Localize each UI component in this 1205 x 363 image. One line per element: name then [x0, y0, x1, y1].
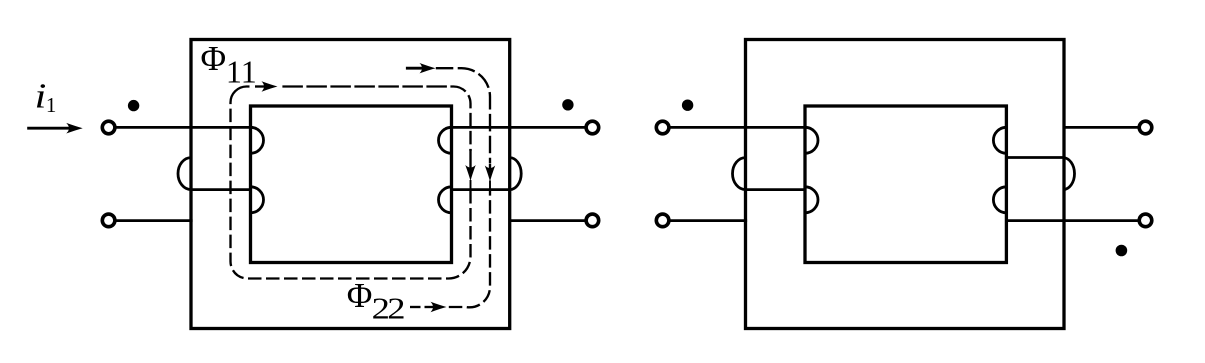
wire: coil 1 middle turn [191, 188, 251, 191]
terminal T4a (top-right, coil 4) [1139, 121, 1152, 134]
wire: coil 1 bottom lead [117, 219, 193, 222]
wire: coil 1 top lead [117, 126, 251, 129]
flux PHI22 down arrow [485, 164, 495, 182]
coil 2 turn arc (inner top) [439, 127, 452, 153]
coil 2 turn arc (outer) [510, 158, 522, 190]
svg-text:Φ: Φ [347, 276, 373, 315]
terminal T4b (bottom-right, coil 4) [1139, 214, 1152, 227]
coil 4 turn arc (inner bottom) [993, 187, 1006, 213]
terminal T1a (top-left, coil 1) [102, 121, 115, 134]
svg-text:i: i [35, 77, 47, 116]
wire: coil 2 top lead [452, 126, 585, 129]
core 2 window (inner boundary) [805, 106, 1006, 263]
flux PHI22 top dashed run and right-top corner [436, 68, 490, 163]
svg-text:1: 1 [241, 53, 257, 89]
flux PHI11 top-right corner and right leg [454, 87, 471, 152]
terminal T2a (top-right, coil 2) [586, 121, 599, 134]
coil 3 turn arc (inner top) [805, 127, 818, 153]
flux PHI22 bottom leading dash [410, 306, 421, 308]
wire: coil 4 top lead [1063, 126, 1138, 129]
coil 1 turn arc (inner top) [251, 127, 264, 153]
svg-text:2: 2 [387, 292, 405, 326]
wire: coil 3 top lead [671, 126, 806, 129]
label i1 [35, 77, 57, 117]
core 1 outer boundary [191, 40, 510, 329]
flux PHI22 right leg lower and bottom-right corner [489, 181, 491, 192]
wire: coil 3 middle turn [746, 188, 806, 191]
coil 1 turn arc (inner bottom) [251, 187, 264, 213]
svg-text:1: 1 [226, 53, 242, 89]
polarity dot, coil 3 [682, 100, 693, 111]
flux PHI11 top dashed run [282, 85, 453, 87]
polarity dot, coil 2 [562, 99, 573, 110]
flux PHI22 bottom arrow [425, 302, 447, 312]
coil 3 turn arc (outer) [733, 158, 746, 190]
flux PHI11 top-left corner (solid lead) [231, 87, 250, 103]
flux PHI22 top arrow (solid lead) [406, 63, 436, 73]
coil 2 turn arc (inner bottom) [439, 187, 452, 213]
core 2 outer boundary [746, 40, 1065, 329]
wire: coil 4 middle turn [1006, 156, 1063, 159]
label PHI11 [201, 39, 257, 89]
wire: coil 2 middle turn [452, 188, 510, 191]
coil 4 turn arc (outer) [1063, 158, 1075, 190]
coil 1 turn arc (outer) [178, 158, 191, 190]
coil 4 turn arc (inner top) [993, 127, 1006, 153]
terminal T3a (top-left, coil 3) [656, 121, 669, 134]
current arrow i1 [27, 123, 82, 134]
svg-text:Φ: Φ [201, 39, 227, 78]
terminal T1b (bottom-left, coil 1) [102, 214, 115, 227]
terminal T3b (bottom-left, coil 3) [656, 214, 669, 227]
wire: coil 2 bottom lead [510, 219, 585, 222]
polarity dot, coil 1 [128, 100, 139, 111]
flux PHI11 top arrow [255, 81, 278, 91]
flux PHI11 right leg lower, bottom and left leg [470, 180, 472, 191]
wire: coil 4 bottom lead [1006, 219, 1137, 222]
svg-text:1: 1 [46, 93, 57, 117]
terminal T2b (bottom-right, coil 2) [586, 214, 599, 227]
label PHI22 [347, 276, 406, 326]
core 1 window (inner boundary) [251, 106, 452, 263]
polarity dot, coil 4 [1116, 245, 1128, 257]
flux PHI11 down arrow [465, 149, 475, 181]
wire: coil 3 bottom lead [671, 219, 748, 222]
coil 3 turn arc (inner bottom) [805, 187, 818, 213]
